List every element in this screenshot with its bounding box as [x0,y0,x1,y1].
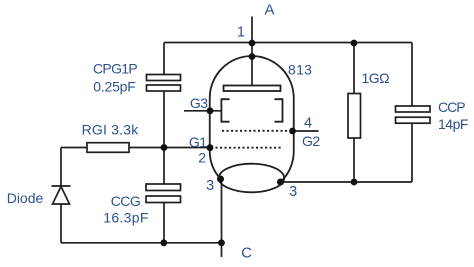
wire G3 stub [184,110,221,112]
tube beam plate left [221,99,229,122]
capacitor C2 CCG [146,184,181,203]
tube grid G1 dotted [211,147,283,149]
wire pin 3 right to bottom right rail [281,181,413,183]
wire 1G resistor bottom lead [353,138,355,182]
svg-text:CCP: CCP [438,99,465,115]
tube beam plate right [275,99,283,122]
svg-text:4: 4 [304,116,312,132]
wire G1 net right segment [129,147,210,149]
junction dot 1G bottom [351,179,358,186]
junction dot G1 CPG1P [161,144,168,151]
svg-text:G3: G3 [190,95,208,111]
junction dot G2 pin4 [289,128,296,135]
wire CPG1P bottom lead [163,91,165,148]
svg-text:CCG: CCG [111,193,141,209]
wire CCP branch bottom [411,123,413,182]
svg-text:A: A [264,2,274,19]
wire CCP branch top [411,43,413,107]
junction dot CCG bottom [160,239,167,246]
svg-text:14pF: 14pF [438,116,468,132]
junction dot node C [218,239,225,246]
wire CPG1P top lead [163,43,165,75]
tube grid G2 dotted [222,130,289,132]
wire CCG top lead [163,148,165,185]
junction dot pin3 left [217,176,224,183]
resistor R1 1G ohm [348,94,361,139]
svg-text:3: 3 [206,178,214,194]
svg-text:C: C [241,245,252,262]
wire diode bottom lead [60,204,62,243]
svg-text:1GΩ: 1GΩ [362,70,390,86]
svg-text:CPG1P: CPG1P [93,61,137,77]
wire pin 3 left lead [221,179,223,243]
wire node C stub [221,243,223,257]
svg-text:G1: G1 [189,134,207,150]
svg-text:0.25pF: 0.25pF [93,79,135,95]
tube envelope V1 813 [210,56,294,182]
resistor RGI 3.3k [87,143,129,153]
svg-text:RGI 3.3k: RGI 3.3k [82,122,140,138]
capacitor C1 CPG1P [147,75,181,92]
wire pin 4 G2 stub [293,130,319,132]
junction dot G3 [207,107,214,114]
svg-text:Diode: Diode [7,190,44,206]
wire diode top lead [60,148,62,187]
svg-text:G2: G2 [302,133,320,149]
tube filament ellipse [219,164,284,193]
wire G1 net left segment [61,147,87,149]
svg-text:813: 813 [288,62,312,78]
svg-text:16.3pF: 16.3pF [103,210,148,226]
junction dot 1G top [351,40,358,47]
capacitor C3 CCP [396,106,431,123]
junction dot pin1 top rail [249,40,256,47]
wire bottom rail [61,242,222,244]
svg-text:3: 3 [289,184,297,200]
wire 1G resistor top lead [353,43,355,94]
junction dot envelope top [249,53,256,60]
junction dot G1 envelope [207,144,214,151]
junction dot pin3 right [277,179,284,186]
diode D1 [52,186,71,204]
wire pin 1 anode lead [251,17,253,86]
tube anode plate [224,86,281,92]
wire top rail [164,42,412,44]
svg-text:1: 1 [237,25,245,41]
wire CCG bottom lead [163,203,165,243]
svg-text:2: 2 [198,150,206,166]
